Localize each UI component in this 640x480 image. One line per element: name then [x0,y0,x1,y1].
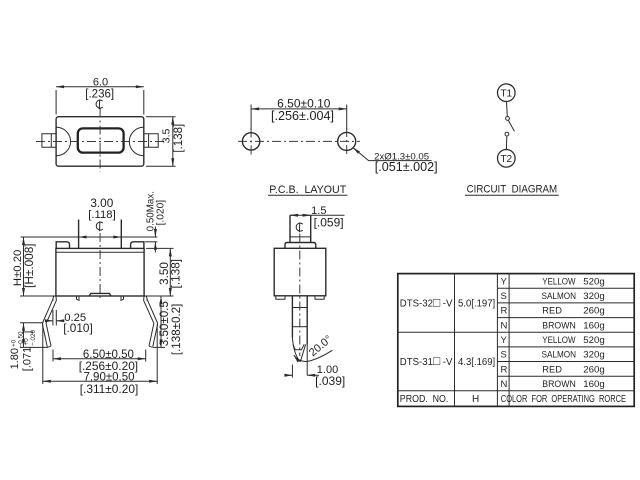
svg-text:BROWN: BROWN [542,379,576,390]
tab top extension line [145,241,157,243]
side view centerline [299,234,301,357]
svg-text:DTS-32□ -V: DTS-32□ -V [400,295,453,309]
pcb hole left [242,133,259,150]
svg-text:[.071: [.071 [22,347,34,371]
centerline symbol side view [296,222,303,232]
dimension 0.25 leg thickness [45,310,93,335]
svg-text:BROWN: BROWN [542,320,576,331]
svg-text:[.311±0.20]: [.311±0.20] [80,382,139,396]
svg-text:[.039]: [.039] [315,374,345,388]
dimension 1.00 [285,364,346,388]
svg-text:[.138]: [.138] [173,124,185,153]
svg-text:RED: RED [542,364,562,375]
table footer H [472,394,479,405]
svg-text:YELLOW: YELLOW [542,335,575,346]
svg-text:320g: 320g [583,291,605,302]
top view left pin [42,134,56,147]
top view actuator rounded rect [78,128,124,152]
svg-text:N: N [501,379,508,390]
pcb horizontal centerline [238,140,360,142]
svg-text:YELLOW: YELLOW [542,276,575,287]
centerline symbol front view [96,221,103,231]
dimension 6.50±0.10 [251,96,347,130]
pcb hole right vertical centerline [346,128,348,155]
svg-text:T2: T2 [500,154,512,165]
svg-text:[.051±.002]: [.051±.002] [375,160,438,174]
top view vertical centerline [99,109,101,173]
label CIRCUIT DIAGRAM [465,184,559,196]
svg-text:320g: 320g [583,350,605,361]
front view right top tab [131,242,144,249]
lower contact [505,132,509,136]
top view horizontal centerline [36,141,164,143]
table cell 4.3[.169] [458,357,495,368]
dimension 3.50±0.5 leg right [153,296,183,355]
svg-text:160g: 160g [583,379,605,390]
top view right recess semicircle [129,127,143,155]
dimension 0.50Max right [146,191,167,252]
side view shoulder [285,243,316,249]
front view button [79,220,122,249]
svg-text:R: R [501,306,508,317]
svg-text:P.C.B. LAYOUT: P.C.B. LAYOUT [269,184,346,196]
dimension 3.00 arrows [79,196,122,237]
table vertical grid lines [455,274,510,407]
svg-text:4.3[.169]: 4.3[.169] [458,357,495,368]
svg-text:[.138±0.2]: [.138±0.2] [170,304,183,356]
table color rows group 1 [542,276,605,331]
top view body [56,117,144,167]
front view body [56,248,144,300]
top view right pin [144,134,158,147]
svg-text:N: N [501,320,508,331]
svg-text:[.138]: [.138] [169,259,183,289]
svg-text:5.0[.197]: 5.0[.197] [458,298,495,309]
table cell DTS-32-V [400,295,453,309]
svg-text:160g: 160g [583,320,605,331]
svg-text:260g: 260g [583,306,605,317]
svg-text:260g: 260g [583,364,605,375]
wire T1 to upper contact [506,101,509,117]
front view button top extension line [21,236,158,238]
dimension 6.0 [56,76,144,114]
dimension 3.50 body height right [146,248,183,296]
svg-text:[.118]: [.118] [88,209,115,221]
leader 2x1.3 hole callout [353,148,438,174]
side view pin bent tip [292,338,305,362]
svg-text:Y: Y [501,276,508,287]
terminal T2 [498,150,516,168]
svg-text:T1: T1 [500,88,512,99]
front view left leg [42,296,56,347]
dimension 3.5 (top view height) [146,117,185,167]
terminal T1 [498,84,516,102]
centerline symbol top view [96,99,103,109]
dimension 6.50±0.50 [53,349,146,373]
svg-text:SALMON: SALMON [542,350,577,361]
svg-text:RED: RED [542,306,562,317]
front view vertical centerline [99,233,101,301]
front view right leg [144,296,158,347]
dimension 1.5 [290,205,345,230]
svg-text:SALMON: SALMON [542,291,577,302]
svg-text:[.236]: [.236] [85,88,114,100]
svg-text:520g: 520g [583,335,605,346]
svg-text:PROD. NO.: PROD. NO. [400,394,449,405]
upper contact [506,117,510,121]
svg-text:[.010]: [.010] [63,321,93,335]
svg-text:[H±.008]: [H±.008] [22,243,36,288]
svg-text:S: S [501,291,507,302]
switch arm [508,120,514,131]
svg-text:DTS-31□ -V: DTS-31□ -V [400,354,453,368]
side view pin [292,296,307,376]
pcb hole right [338,132,356,150]
svg-text:]: ] [22,331,34,334]
side view left foot [276,296,285,300]
pcb hole left vertical centerline [250,129,252,155]
side view button [289,215,311,242]
svg-text:1.80: 1.80 [9,348,21,369]
table cell 5.0[.197] [458,298,495,309]
table footer COLOR FOR OPERATING RORCE [501,394,626,405]
svg-text:H: H [472,394,479,405]
svg-text:R: R [501,364,508,375]
dimension H±0.20 left [12,237,54,296]
svg-text:CIRCUIT DIAGRAM: CIRCUIT DIAGRAM [467,184,558,196]
table code column Y S R N x2 [501,276,508,390]
svg-text:[.059]: [.059] [314,215,344,229]
side view right foot [315,296,324,300]
svg-text:520g: 520g [583,276,605,287]
svg-text:S: S [501,350,507,361]
svg-text:COLOR FOR OPERATING RORCE: COLOR FOR OPERATING RORCE [501,394,626,405]
svg-text:3.5: 3.5 [161,128,173,143]
dimension 1.80 left [9,323,48,371]
label P.C.B. LAYOUT [268,184,347,196]
front view left top tab [56,242,69,249]
top view left recess semicircle [56,127,70,155]
svg-text:6.0: 6.0 [93,76,108,88]
dimension 7.90±0.50 [43,325,157,397]
svg-text:[.256±.004]: [.256±.004] [271,109,334,123]
svg-text:[.020]: [.020] [156,200,167,226]
svg-text:3.00: 3.00 [90,196,113,210]
side view body [274,248,326,295]
svg-text:Y: Y [501,335,508,346]
table horizontal grid lines [398,288,634,391]
table color rows group 2 [542,335,605,390]
20 degree arc [294,333,335,361]
table footer PROD NO [400,394,449,405]
wire lower contact to T2 [505,136,507,150]
table cell DTS-31-V [400,354,453,368]
table outer border [398,274,634,407]
